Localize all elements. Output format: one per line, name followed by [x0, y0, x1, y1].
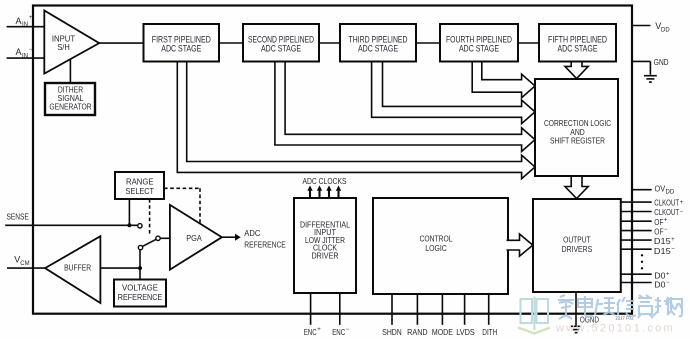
pin RAND — [416, 294, 418, 325]
wire stage2-stage3 — [319, 42, 340, 44]
third pipelined ADC stage box — [340, 24, 416, 62]
svg-text:LVDS: LVDS — [456, 327, 475, 337]
wire PGA output — [222, 236, 236, 238]
svg-text:SELECT: SELECT — [126, 186, 155, 196]
svg-text:A: A — [16, 47, 22, 57]
ADC clocks arrow 1 — [309, 190, 311, 199]
wire buffer to node — [100, 267, 140, 269]
svg-text:ADC: ADC — [244, 228, 260, 238]
svg-text:−: − — [671, 247, 675, 253]
wire stage4-stage5 — [518, 42, 539, 44]
wire SENSE — [5, 224, 138, 226]
svg-text:+: + — [671, 237, 675, 243]
svg-text:OF: OF — [654, 217, 663, 227]
svg-text:REFERENCE: REFERENCE — [244, 239, 286, 249]
arrowhead adc clock 2 — [317, 185, 322, 190]
svg-text:+: + — [666, 271, 670, 277]
dashed range select to PGA horizontal — [164, 187, 200, 189]
pin DITH — [488, 294, 490, 325]
voltage reference box — [114, 280, 166, 307]
arrowhead adc clock 1 — [307, 185, 312, 190]
svg-text:+: + — [664, 218, 668, 224]
wire to dither — [69, 60, 71, 84]
ADC clocks arrow 3 — [328, 190, 330, 199]
pin SHDN — [391, 294, 393, 325]
svg-text:DRIVER: DRIVER — [312, 250, 339, 260]
pin D0- — [621, 282, 652, 284]
pin OF- — [621, 230, 652, 232]
ADC clocks arrow 2 — [318, 190, 320, 199]
wire switch to PGA — [160, 237, 170, 239]
second pipelined ADC stage box — [243, 24, 319, 62]
svg-text:SHDN: SHDN — [382, 327, 402, 337]
svg-text:D15: D15 — [654, 236, 671, 246]
junction dot vref node — [138, 266, 142, 270]
svg-text:+: + — [317, 327, 321, 333]
wire AIN+ — [7, 26, 45, 28]
svg-text:D15: D15 — [654, 246, 671, 256]
wire sense to range select — [128, 199, 130, 225]
svg-text:ADC STAGE: ADC STAGE — [358, 43, 398, 53]
svg-text:GENERATOR: GENERATOR — [49, 101, 91, 111]
bus arrow stage2 to correction — [275, 63, 535, 152]
svg-text:REFERENCE: REFERENCE — [118, 292, 163, 302]
block arrow control to output drivers — [507, 234, 533, 256]
differential clock driver box — [294, 198, 356, 293]
pin CLKOUT+ — [621, 201, 652, 203]
pin ENC- — [339, 293, 341, 325]
svg-text:OF: OF — [654, 227, 663, 237]
svg-text:BUFFER: BUFFER — [64, 263, 91, 273]
svg-text:ADC STAGE: ADC STAGE — [161, 43, 201, 53]
svg-text:OV: OV — [655, 183, 666, 193]
chip outline — [33, 6, 632, 314]
svg-text:ENC: ENC — [304, 327, 317, 337]
op-amp INPUT S/H — [44, 11, 99, 74]
svg-text:−: − — [664, 227, 668, 233]
watermark hanzi 家电维修资料网 — [558, 295, 682, 319]
switch lever — [142, 239, 156, 246]
ground OGND — [571, 325, 581, 327]
text INPUT S/H — [49, 33, 611, 302]
svg-text:ADC CLOCKS: ADC CLOCKS — [303, 176, 347, 186]
ground GND — [649, 61, 651, 74]
svg-text:ENC: ENC — [332, 327, 345, 337]
pin VDD — [632, 25, 650, 27]
wire stage1-stage2 — [219, 42, 243, 44]
svg-text:−: − — [680, 210, 684, 216]
arrowhead PGA output — [235, 234, 241, 241]
svg-text:DD: DD — [661, 27, 670, 33]
first pipelined ADC stage box — [144, 24, 220, 62]
svg-text:DD: DD — [666, 189, 675, 195]
control logic box — [373, 198, 508, 294]
output drivers box — [533, 199, 621, 292]
arrowhead adc clock 4 — [336, 185, 341, 190]
pin ENC+ — [310, 293, 312, 325]
svg-text:+: + — [29, 15, 33, 21]
svg-text:CONTROL: CONTROL — [420, 233, 453, 243]
bus arrow stage3 to correction — [372, 63, 535, 124]
svg-text:ADC STAGE: ADC STAGE — [459, 43, 499, 53]
svg-text:CM: CM — [20, 261, 29, 267]
block arrow stage5 down to correction — [565, 63, 588, 79]
buffer triangle — [45, 236, 100, 303]
svg-text:IN: IN — [22, 53, 28, 59]
pin MODE — [441, 294, 443, 325]
fourth pipelined ADC stage box — [440, 24, 518, 62]
bus arrow stage1 to correction — [177, 63, 535, 179]
wire node vertical — [139, 250, 141, 280]
pin CLKOUT- — [621, 211, 652, 213]
block arrow correction down to output drivers — [565, 177, 588, 199]
svg-text:DITH: DITH — [482, 327, 497, 337]
wire AIN- — [7, 57, 45, 59]
svg-text:RANGE: RANGE — [126, 177, 154, 187]
svg-text:−: − — [666, 280, 670, 286]
switch pivot circle — [138, 245, 142, 249]
svg-text:CLKOUT: CLKOUT — [654, 198, 679, 208]
pin GND wire — [632, 60, 650, 62]
ADC clocks arrow 4 — [337, 190, 339, 199]
pin LVDS — [464, 294, 466, 325]
svg-text:SENSE: SENSE — [7, 211, 30, 221]
pin D15- — [621, 248, 652, 250]
dashed range select to PGA vertical — [199, 188, 201, 224]
svg-text:PGA: PGA — [186, 233, 202, 243]
pin OGND wire — [575, 292, 577, 326]
svg-text:D0: D0 — [654, 279, 666, 289]
svg-text:−: − — [29, 47, 33, 53]
wire VCM — [7, 267, 45, 269]
fifth pipelined ADC stage box — [539, 24, 616, 62]
svg-text:CLKOUT: CLKOUT — [654, 207, 679, 217]
svg-text:+: + — [680, 200, 684, 206]
ellipsis dots D15..D0 — [641, 254, 643, 256]
watermark book icon — [518, 297, 550, 334]
svg-text:A: A — [16, 16, 22, 26]
wire stage3-stage4 — [416, 42, 440, 44]
switch contact circle sense — [138, 224, 142, 228]
svg-text:RAND: RAND — [407, 327, 428, 337]
svg-text:−: − — [346, 327, 350, 333]
svg-text:S/H: S/H — [57, 42, 70, 52]
arrowhead adc clock 3 — [326, 185, 331, 190]
svg-text:IN: IN — [22, 22, 28, 28]
svg-text:MODE: MODE — [432, 327, 453, 337]
svg-text:ADC STAGE: ADC STAGE — [558, 43, 598, 53]
dither signal generator box — [45, 83, 95, 115]
bus arrow stage4 to correction — [472, 63, 535, 98]
op-amp PGA — [170, 205, 222, 270]
pin OF+ — [621, 220, 652, 222]
pin D15+ — [621, 239, 652, 241]
wire S/H to stage1 — [99, 42, 143, 44]
correction logic and shift register box — [535, 79, 618, 176]
junction dot sense — [127, 223, 131, 227]
svg-text:LOGIC: LOGIC — [425, 243, 447, 253]
switch contact circle pga — [156, 236, 160, 240]
range select box — [115, 172, 164, 199]
pin OVDD — [632, 189, 652, 191]
pin D0+ — [621, 273, 652, 275]
svg-text:DRIVERS: DRIVERS — [562, 244, 593, 254]
svg-text:ADC STAGE: ADC STAGE — [261, 43, 301, 53]
svg-text:www.520101.com: www.520101.com — [555, 323, 675, 335]
svg-text:GND: GND — [654, 57, 669, 67]
svg-text:SHIFT REGISTER: SHIFT REGISTER — [550, 136, 605, 146]
svg-text:VOLTAGE: VOLTAGE — [122, 283, 158, 293]
dashed range select to switch — [149, 199, 151, 234]
